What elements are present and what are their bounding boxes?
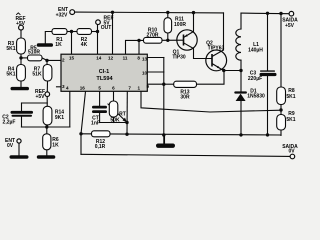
svg-text:TIP30: TIP30 [172,54,186,60]
svg-text:51K: 51K [32,72,42,78]
svg-text:1: 1 [138,86,141,91]
svg-text:0V: 0V [7,143,14,149]
svg-text:9: 9 [147,84,150,89]
svg-text:+5V: +5V [16,21,26,27]
svg-text:16: 16 [80,86,86,91]
svg-text:0V: 0V [288,148,295,154]
svg-text:1K: 1K [55,42,62,48]
svg-text:RT: RT [119,112,126,118]
svg-text:270R: 270R [147,33,159,39]
svg-text:TIPY63: TIPY63 [208,45,225,51]
svg-text:1N5830: 1N5830 [247,94,265,100]
svg-text:1nF: 1nF [91,121,100,127]
svg-text:6: 6 [112,86,115,91]
svg-text:2: 2 [62,57,65,62]
svg-text:11: 11 [123,56,128,61]
svg-text:140µH: 140µH [248,48,263,54]
svg-text:50K: 50K [110,117,120,123]
svg-text:4K: 4K [81,42,88,48]
svg-text:TL594: TL594 [96,76,113,82]
svg-text:+32V: +32V [56,13,68,19]
svg-text:14: 14 [96,56,102,61]
svg-text:5: 5 [98,86,101,91]
svg-text:4: 4 [66,86,69,91]
svg-text:3: 3 [62,84,65,89]
svg-text:CI-1: CI-1 [99,69,110,75]
svg-text:5K1: 5K1 [286,94,295,100]
svg-text:5K1: 5K1 [6,72,15,78]
svg-text:5K1: 5K1 [6,46,15,52]
svg-text:OUT: OUT [101,25,112,31]
svg-text:1K: 1K [52,142,59,148]
svg-text:100R: 100R [174,22,186,28]
svg-text:5K1: 5K1 [286,117,295,123]
svg-text:7: 7 [128,86,131,91]
svg-text:10: 10 [142,71,148,76]
svg-text:0,1R: 0,1R [95,144,106,150]
svg-text:+5V: +5V [285,23,295,29]
svg-text:220µF: 220µF [248,76,262,82]
svg-text:30R: 30R [180,95,190,101]
svg-text:9K1: 9K1 [55,115,64,121]
svg-text:13: 13 [142,57,148,62]
svg-text:+5V: +5V [35,94,45,100]
svg-text:2,2µF: 2,2µF [3,120,16,126]
svg-text:15: 15 [69,56,75,61]
svg-text:12: 12 [108,56,114,61]
svg-text:8: 8 [137,56,140,61]
svg-text:510R: 510R [28,50,40,56]
